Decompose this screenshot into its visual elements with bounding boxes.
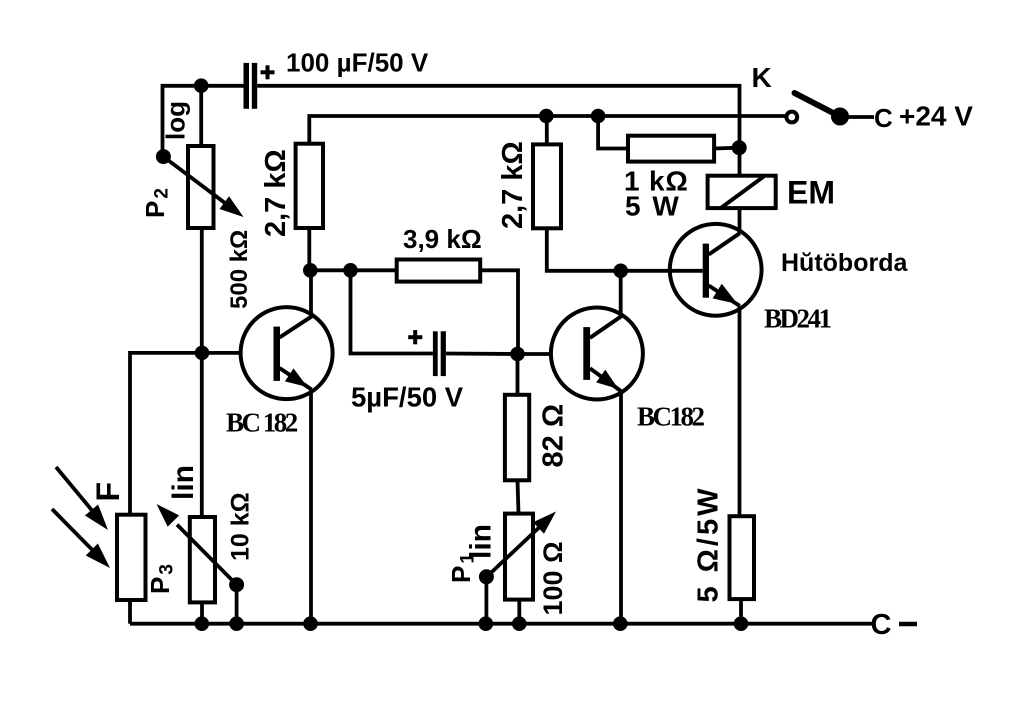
- transistor Q1 collector line: [280, 316, 313, 337]
- svg-text:P3: P3: [145, 562, 178, 594]
- svg-text:lin: lin: [167, 465, 200, 500]
- potentiometer P1 body: [505, 514, 533, 600]
- light arrow 1 at F: [56, 467, 95, 514]
- transistor Q3 BD241 circle: [670, 224, 762, 316]
- svg-text:F: F: [90, 482, 126, 502]
- relay EM body: [708, 176, 776, 208]
- rail node below P1 wiper: [479, 616, 494, 631]
- svg-text:Hŭtöborda: Hŭtöborda: [781, 249, 908, 277]
- wire right BC182 collector riser: [619, 271, 623, 317]
- node 1k right: [732, 140, 747, 155]
- potentiometer P3 body: [190, 517, 215, 602]
- transistor Q2 BC182 right circle: [551, 308, 643, 400]
- wire 82 top lead: [516, 354, 520, 395]
- node C2 branch: [343, 263, 358, 278]
- rail node below 5ohm: [734, 616, 749, 631]
- resistor 82 body: [505, 395, 529, 481]
- svg-text:5 W: 5 W: [625, 191, 681, 222]
- svg-text:P2: P2: [140, 186, 173, 218]
- wire base rail of left BC182 and drop to F: [130, 353, 241, 515]
- resistor 2.7k left body: [296, 144, 323, 228]
- resistor 3.9k body: [397, 260, 481, 282]
- P1 wiper terminal dot: [479, 569, 494, 584]
- svg-text:C: C: [874, 103, 893, 133]
- node 3.9k / base / 82: [510, 347, 525, 362]
- svg-text:K: K: [752, 62, 772, 93]
- wire 82 bottom to P1: [518, 480, 519, 513]
- P3 wiper terminal dot: [229, 577, 244, 592]
- wire 1k right lead: [714, 146, 739, 151]
- svg-text:BC182: BC182: [637, 402, 705, 432]
- capacitor C2 plus sign: [408, 330, 422, 344]
- wire P3 bottom lead: [200, 602, 204, 623]
- wire C2 branch left: [351, 270, 433, 353]
- wire P1 bottom lead: [517, 600, 521, 624]
- switch K pivot dot: [831, 108, 849, 126]
- svg-text:100 Ω: 100 Ω: [538, 541, 568, 615]
- capacitor C1 100uF plates: [244, 63, 258, 109]
- resistor 1k body: [628, 136, 714, 162]
- transistor Q3 base bar: [703, 244, 709, 298]
- transistor Q2 emitter arrowhead: [596, 370, 618, 389]
- wire right 2.7k bottom lead to BD241 base: [547, 228, 703, 270]
- svg-text:log: log: [161, 101, 191, 140]
- svg-text:5µF/50 V: 5µF/50 V: [351, 382, 464, 413]
- wire node row to 3.9k: [310, 268, 397, 272]
- light arrow 2 at F: [52, 509, 96, 554]
- transistor Q3 emitter line: [709, 286, 740, 307]
- transistor Q2 base bar: [583, 327, 590, 380]
- resistor 5ohm body: [730, 516, 755, 599]
- wire C2 to node: [446, 352, 518, 356]
- wire P1 wiper drop: [484, 577, 488, 624]
- svg-text:C: C: [871, 609, 892, 641]
- svg-text:5 Ω/5W: 5 Ω/5W: [693, 486, 725, 603]
- svg-text:100 µF/50 V: 100 µF/50 V: [286, 48, 429, 78]
- node right 2.7k top: [539, 109, 554, 124]
- capacitor C2 5uF plates: [433, 331, 446, 376]
- potentiometer P1 wiper arrow: [487, 525, 543, 577]
- wire 3.9k to drop at 518: [480, 270, 518, 354]
- rail node below P3: [195, 616, 210, 631]
- wire BD241 emitter drop to 5ohm: [738, 306, 742, 516]
- wire 5ohm bottom lead: [739, 599, 743, 624]
- minus dash at C terminal: [899, 622, 917, 627]
- svg-text:2,7 kΩ: 2,7 kΩ: [497, 141, 529, 229]
- wire left 2.7k bottom lead: [307, 228, 311, 270]
- node left 2.7k / collector: [303, 263, 318, 278]
- transistor Q3 emitter arrowhead: [713, 284, 738, 304]
- wire left 2.7k top lead and 116-rail: [309, 116, 785, 144]
- wire P2 wiper riser + top-left segment: [163, 86, 244, 157]
- switch K lever: [795, 93, 841, 117]
- transistor Q1 emitter arrowhead: [285, 368, 308, 387]
- svg-text:3,9 kΩ: 3,9 kΩ: [403, 224, 482, 254]
- svg-text:EM: EM: [787, 175, 835, 211]
- capacitor C1 plus sign: [261, 65, 275, 79]
- potentiometer P2 wiper arrow: [163, 157, 228, 206]
- svg-text:BD241: BD241: [764, 304, 832, 334]
- svg-text:500 kΩ: 500 kΩ: [226, 230, 253, 309]
- relay EM diagonal: [722, 176, 765, 207]
- wire top rail from C1 to right drop: [257, 86, 739, 176]
- node base of left BC182: [195, 346, 210, 361]
- rail node left emitter: [303, 616, 318, 631]
- wire left BC182 collector riser: [309, 270, 313, 316]
- transistor Q3 collector line: [709, 233, 740, 254]
- wire right BC182 emitter drop: [619, 392, 623, 624]
- svg-text:P1: P1: [446, 551, 479, 583]
- wire EM bottom to BD241 collector: [738, 208, 742, 233]
- resistor 2.7k right body: [533, 144, 561, 228]
- potentiometer P3 wiper arrow: [177, 525, 237, 585]
- node 1k top: [591, 109, 606, 124]
- photoresistor F body: [117, 515, 146, 600]
- wire 1k left lead: [598, 116, 628, 149]
- rail node below P3 wiper: [229, 616, 244, 631]
- svg-text:2,7 kΩ: 2,7 kΩ: [260, 149, 292, 237]
- wire P3 wiper drop: [235, 585, 239, 624]
- transistor Q1 emitter line: [280, 368, 312, 390]
- potentiometer P2 body: [188, 146, 214, 228]
- P2 wiper terminal dot: [156, 149, 171, 164]
- svg-text:82 Ω: 82 Ω: [538, 404, 570, 468]
- rail node right emitter: [613, 616, 628, 631]
- transistor Q1 base bar: [274, 327, 281, 381]
- wire switch to C terminal: [849, 115, 875, 119]
- transistor Q2 collector line: [590, 316, 622, 338]
- wire node to right BC182 base: [518, 352, 552, 356]
- wire left BC182 emitter drop: [309, 389, 313, 623]
- wire P2 bottom lead down through node to P3: [200, 228, 204, 517]
- wire right 2.7k top lead: [545, 116, 549, 144]
- wire P2 top lead: [199, 86, 203, 146]
- wire F bottom lead: [128, 600, 132, 624]
- svg-text:10 kΩ: 10 kΩ: [227, 492, 255, 561]
- wire bottom rail: [130, 622, 872, 626]
- switch K open contact circle: [786, 112, 797, 123]
- svg-text:+24 V: +24 V: [899, 101, 973, 132]
- rail node below P1: [512, 616, 527, 631]
- node BD241 base row: [613, 264, 628, 279]
- transistor Q1 BC182 left circle: [241, 307, 333, 399]
- svg-text:BC 182: BC 182: [226, 408, 298, 438]
- node top-left at P2 top: [194, 78, 209, 93]
- transistor Q2 emitter line: [590, 368, 622, 391]
